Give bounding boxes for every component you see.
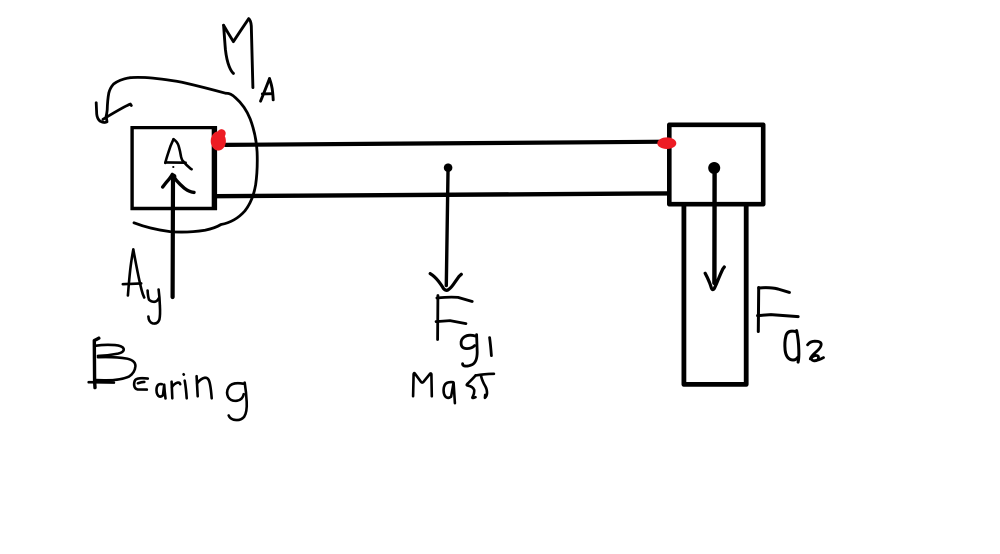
red joint dot at left box corner xyxy=(211,129,226,150)
Ay arrowhead xyxy=(163,174,194,192)
label Bearing xyxy=(89,338,247,420)
beam top line xyxy=(226,142,667,145)
label F_g1 xyxy=(436,296,491,367)
label F_g2 xyxy=(758,288,824,363)
hanging rectangle (mass 2) xyxy=(684,206,746,385)
F_g1 arrow shaft xyxy=(446,172,448,286)
label M_A xyxy=(224,19,274,101)
moment arrowhead barb xyxy=(103,104,131,119)
label A inside left box xyxy=(165,139,191,169)
F_g2 arrowhead xyxy=(705,267,724,290)
F_g1 arrowhead xyxy=(430,274,461,291)
mass dot on beam xyxy=(444,163,453,172)
Ay arrow (shaft) xyxy=(171,178,176,297)
label Ay xyxy=(123,250,160,324)
dot in right box xyxy=(708,162,720,174)
label Mass xyxy=(413,373,494,403)
left box (bearing A) xyxy=(131,126,218,210)
right red joint dot xyxy=(657,137,676,149)
right box xyxy=(669,125,763,204)
moment arrowhead tick xyxy=(96,103,107,123)
F_g2 arrow shaft xyxy=(712,174,717,283)
moment arc M_A (curved arrow around left box) xyxy=(106,77,257,232)
beam bottom line xyxy=(217,193,668,196)
